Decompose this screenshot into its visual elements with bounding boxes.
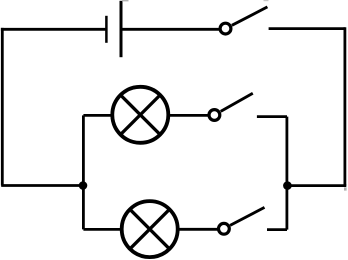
wire: junction A branch to lamp L2 bbox=[83, 228, 123, 231]
switch S3 lever (open) bbox=[230, 207, 264, 225]
junction node A bbox=[79, 181, 88, 190]
wire: right branch vertical through junction B bbox=[285, 117, 288, 230]
crop artifact: right rail overshoot below corner bbox=[344, 187, 347, 190]
switch S3 pivot terminal bbox=[219, 223, 230, 234]
battery B1 long plate bbox=[120, 1, 123, 57]
wire: battery to switch S1 bbox=[121, 28, 221, 31]
switch S2 fixed contact wire bbox=[257, 115, 287, 118]
lamp L2 cross stroke 1 bbox=[130, 209, 170, 249]
wire: lamp L2 to switch S3 bbox=[176, 228, 219, 231]
switch S2 lever (open) bbox=[221, 93, 253, 111]
switch S1 fixed contact wire bbox=[269, 27, 345, 30]
switch S3 fixed contact wire bbox=[267, 228, 287, 231]
wire: left wire from left rail to battery bbox=[1, 28, 106, 31]
lamp L2 cross stroke 2 bbox=[130, 209, 170, 249]
wire: left rail vertical bbox=[1, 28, 4, 186]
switch S1 pivot terminal bbox=[220, 23, 231, 34]
wire: lamp L1 to switch S2 bbox=[167, 114, 210, 117]
lamp L1 cross stroke 2 bbox=[121, 95, 161, 135]
junction node B bbox=[283, 181, 292, 190]
lamp L1 cross stroke 1 bbox=[121, 95, 161, 135]
switch S1 lever (open) bbox=[232, 7, 268, 25]
wire: bottom-left horizontal to junction A bbox=[1, 184, 83, 187]
lamp L2 bulb circle bbox=[122, 201, 178, 257]
wire: left branch vertical through junction A bbox=[82, 115, 85, 229]
crop artifact above battery long plate bbox=[122, 0, 129, 1]
wire: right rail vertical bbox=[343, 27, 346, 185]
lamp L1 bulb circle bbox=[112, 87, 168, 143]
battery B1 short plate bbox=[105, 16, 108, 43]
switch S2 pivot terminal bbox=[209, 110, 220, 121]
crop artifact above switch S1 lever tip bbox=[264, 0, 269, 1]
wire: junction A branch to lamp L1 bbox=[83, 114, 114, 117]
wire: right rail to junction B bbox=[287, 184, 346, 187]
